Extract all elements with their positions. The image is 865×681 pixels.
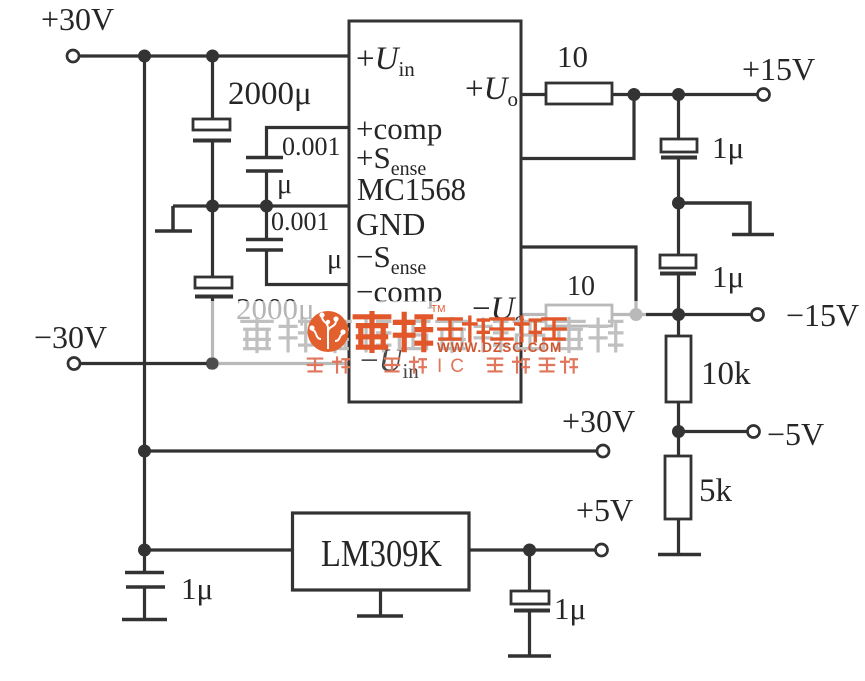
node +30V out — [138, 445, 151, 458]
resistor R3 10k — [666, 336, 691, 402]
svg-text:1μ: 1μ — [181, 571, 213, 606]
wire C7 to ground — [143, 588, 146, 619]
wire R4 to ground — [677, 519, 680, 554]
wire R1 to +15V terminal — [612, 93, 758, 96]
wire -Sense feedback — [521, 247, 636, 315]
wire -30V rail — [80, 362, 349, 365]
node mid gnd tap — [672, 197, 685, 210]
node +15V A — [628, 88, 641, 101]
watermark logo — [308, 311, 349, 352]
resistor R4 5k — [665, 456, 691, 519]
svg-text:10k: 10k — [701, 356, 751, 392]
node LM input — [138, 544, 151, 557]
resistor R2 10 — [546, 305, 612, 326]
svg-text:0.001: 0.001 — [282, 132, 341, 161]
wire R3 to -5V node — [677, 402, 680, 456]
label C4 0.001u — [271, 207, 342, 275]
wire C1 to GND rail — [211, 141, 214, 206]
capacitor C5 1u — [661, 139, 697, 158]
svg-text:−15V: −15V — [786, 297, 859, 333]
watermark weiku orange text — [355, 314, 430, 351]
svg-text:TM: TM — [431, 304, 445, 315]
node -15V B — [672, 308, 685, 321]
wire C4 to -comp — [267, 250, 350, 285]
svg-text:0.001: 0.001 — [271, 207, 330, 236]
svg-text:+30V: +30V — [562, 403, 635, 439]
IC border redraw right — [520, 298, 523, 380]
svg-text:+5V: +5V — [576, 492, 633, 528]
svg-text:10: 10 — [567, 271, 595, 302]
wire C5 to mid node — [677, 158, 680, 255]
capacitor C6 1u — [660, 255, 696, 274]
wire stub to C8 — [528, 550, 531, 591]
wire +Uo to R1 — [521, 93, 546, 96]
terminals — [67, 50, 770, 556]
wire GND to C4 — [265, 206, 268, 239]
wire LM309K output — [469, 548, 596, 551]
svg-text:1μ: 1μ — [554, 591, 586, 626]
svg-text:−30V: −30V — [34, 319, 107, 355]
svg-text:GND: GND — [356, 206, 425, 242]
wire C8 to ground — [528, 611, 531, 655]
ground G5 — [357, 614, 403, 618]
wire -5V tap — [679, 430, 749, 433]
wire stub to C1 — [211, 56, 214, 119]
wire +30V vertical bus — [143, 56, 146, 550]
wire +30V top rail — [79, 54, 349, 57]
wire +30V output row — [145, 449, 597, 452]
watermark gray company text — [242, 318, 622, 351]
IC U2 LM309K box — [293, 513, 470, 590]
capacitor C2 2000u bottom — [195, 277, 233, 297]
svg-text:MC1568: MC1568 — [357, 171, 466, 207]
wire GND to C2 — [211, 206, 214, 277]
watermark market orange text — [439, 317, 565, 341]
wire GND rail — [173, 204, 349, 207]
svg-text:10: 10 — [557, 39, 588, 74]
svg-text:1μ: 1μ — [712, 259, 744, 294]
terminal +30V in — [67, 50, 79, 62]
node -30V junction redraw — [207, 358, 219, 370]
node top rail A — [138, 50, 151, 63]
terminal -30V in — [68, 358, 80, 370]
terminal +5V — [596, 544, 608, 556]
capacitor C3 0.001u — [246, 158, 283, 172]
watermark fade box — [210, 301, 646, 380]
node gnd rail A — [206, 200, 219, 213]
capacitor C4 0.001u — [246, 240, 283, 251]
node -5V — [672, 425, 685, 438]
capacitor C7 1u — [125, 573, 165, 588]
wire -Uo to R2 — [521, 313, 546, 316]
svg-text:2000μ: 2000μ — [228, 76, 312, 112]
node -30V junction — [206, 357, 219, 370]
capacitor C1 2000u top — [193, 119, 231, 141]
wire to LM309K input — [145, 548, 293, 551]
svg-text:μ: μ — [327, 244, 342, 275]
wire C6 to -15V rail — [677, 274, 680, 315]
wire C2 to -30V rail — [211, 297, 214, 364]
wire +Sense feedback — [521, 95, 634, 159]
ground G6 — [508, 654, 551, 658]
wire R2 to -15V terminal — [612, 313, 752, 316]
IC U1 MC1568 box — [349, 21, 521, 402]
svg-text:5k: 5k — [699, 473, 733, 509]
ground G3 — [658, 553, 701, 557]
node gnd rail B — [260, 200, 273, 213]
node -15V A — [630, 308, 643, 321]
node top rail B — [206, 50, 219, 63]
node +15V B — [672, 88, 685, 101]
ground G2 tap — [679, 203, 775, 235]
svg-text:1μ: 1μ — [712, 130, 744, 165]
ground G1 — [155, 206, 192, 231]
svg-text:−5V: −5V — [767, 416, 824, 452]
watermark red slogan row — [308, 357, 577, 372]
node +5V — [523, 544, 536, 557]
label C3 0.001u — [277, 132, 341, 200]
wire C3 to GND — [265, 171, 268, 206]
wire LM309K gnd pin — [379, 590, 382, 615]
svg-text:μ: μ — [277, 169, 292, 200]
svg-text:LM309K: LM309K — [321, 533, 442, 575]
svg-text:WWW.DZSC.COM: WWW.DZSC.COM — [437, 340, 562, 355]
wire -15V to R3 — [677, 315, 680, 337]
terminal -15V — [752, 309, 764, 321]
svg-text:+15V: +15V — [742, 51, 815, 87]
capacitor C8 1u — [511, 591, 550, 611]
terminal -5V — [748, 426, 760, 438]
terminal +15V — [758, 89, 770, 101]
terminal +30V out — [597, 445, 609, 457]
svg-text:+30V: +30V — [41, 1, 114, 37]
wire stub to C7 — [143, 550, 146, 571]
wire to C5 — [677, 95, 680, 140]
ground G4 — [122, 618, 167, 622]
IC border redraw left — [348, 298, 351, 380]
resistor R1 10 — [546, 83, 612, 104]
svg-text:IC: IC — [437, 356, 472, 377]
wire +comp — [267, 128, 350, 158]
